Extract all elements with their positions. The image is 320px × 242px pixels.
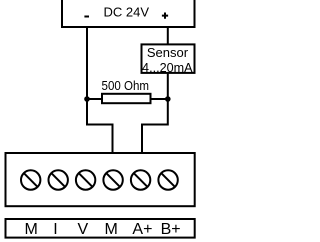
- sensor box (4...20mA transmitter): [142, 44, 195, 73]
- svg-text:DC 24V: DC 24V: [104, 5, 150, 20]
- wire: node B down and over to terminal 5: [142, 99, 168, 153]
- screw terminal 1: [21, 170, 40, 189]
- screw terminal 2: [49, 170, 68, 189]
- svg-text:500 Ohm: 500 Ohm: [102, 78, 150, 93]
- svg-text:I: I: [53, 221, 57, 238]
- minus terminal symbol: [84, 16, 89, 18]
- wire: horizontal through resistor (node A to node B): [87, 98, 168, 100]
- svg-text:M: M: [25, 221, 38, 238]
- plus terminal symbol: [162, 13, 168, 19]
- node A junction dot: [84, 96, 90, 102]
- svg-text:A+: A+: [132, 221, 152, 238]
- power supply box U1 (DC 24V, open at top): [62, 0, 195, 27]
- terminal block body: [6, 153, 195, 206]
- svg-text:V: V: [77, 221, 88, 238]
- wire: node A down and over to terminal 4: [87, 99, 113, 153]
- svg-text:M: M: [105, 221, 118, 238]
- wire: plus terminal down to sensor top: [167, 26, 169, 45]
- screw terminal 3: [76, 170, 95, 189]
- wire: sensor bottom down to node B: [167, 73, 169, 99]
- resistor R1 body: [102, 94, 151, 103]
- svg-text:Sensor: Sensor: [147, 45, 189, 60]
- svg-text:4...20mA: 4...20mA: [142, 60, 193, 75]
- node B junction dot: [165, 96, 171, 102]
- screw terminal 5: [131, 170, 150, 189]
- terminal label strip: [6, 219, 195, 238]
- svg-text:B+: B+: [161, 221, 181, 238]
- screw terminal 4: [103, 170, 122, 189]
- screw terminal 6: [158, 170, 177, 189]
- wire: minus terminal down to node A: [86, 26, 88, 100]
